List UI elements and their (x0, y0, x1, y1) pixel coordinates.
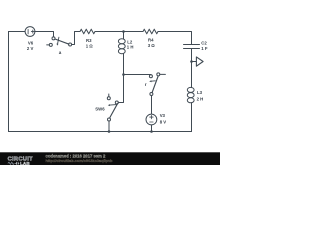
switch r open throw contact (157, 73, 160, 76)
switch a open throw stub (47, 44, 50, 46)
logo resistor zigzag (8, 162, 15, 164)
wire C2 down to L3 (191, 49, 193, 88)
capacitor C2 (184, 44, 200, 46)
wire top-left to V6 (9, 31, 26, 33)
switch a top contact (52, 37, 55, 40)
svg-text:a: a (59, 50, 62, 55)
voltage source V6 (25, 27, 35, 37)
switch a blade (55, 39, 69, 44)
wire node to SW6 (118, 75, 123, 103)
svg-text:8 V: 8 V (160, 119, 167, 124)
switch r blade (152, 77, 158, 93)
probe stub wire (192, 61, 197, 63)
voltage source V3 (146, 114, 157, 125)
wire node to switch r (124, 74, 152, 76)
probe triangle (196, 57, 203, 66)
svg-text:3 Ω: 3 Ω (148, 43, 156, 48)
wire L3 to bottom (191, 103, 193, 132)
wire left vertical (8, 32, 10, 132)
switch SW6 open throw stub (108, 94, 110, 97)
switch r open throw stub (160, 73, 166, 75)
switch r left contact (149, 75, 152, 78)
wire R4 to C2 (158, 32, 192, 45)
wire bottom horizontal (9, 131, 192, 133)
svg-text:r: r (145, 82, 147, 87)
wire V6 to switch a (35, 32, 54, 37)
node probe (junction dot) (190, 60, 193, 63)
svg-text:http://circuitlab.com/c963kc3a: http://circuitlab.com/c963kc3aq5pvb (46, 158, 114, 163)
svg-text:2 H: 2 H (197, 96, 204, 101)
switch SW6 right contact (115, 101, 118, 104)
svg-text:2 V: 2 V (27, 46, 34, 51)
switch a actuator arrow (58, 37, 59, 43)
switch SW6 open throw contact (107, 97, 110, 100)
wire V3 to bottom (151, 125, 153, 132)
wire R3 to R4 (95, 31, 143, 33)
svg-text:V3: V3 (160, 113, 166, 118)
svg-text:1 Ω: 1 Ω (86, 44, 94, 49)
svg-text:SW6: SW6 (95, 107, 105, 112)
inductor L2 (123, 32, 125, 40)
junction dot V3-bottom (150, 130, 153, 133)
switch r common contact (150, 93, 153, 96)
inductor L3 (187, 87, 194, 92)
switch SW6 actuator arrow (110, 104, 117, 107)
switch SW6 common contact (108, 118, 111, 121)
wire switch r to V3 (151, 96, 153, 115)
logo capacitor mark (15, 162, 19, 165)
resistor R4 (143, 29, 158, 34)
wire switch a to R3 (72, 32, 80, 45)
svg-text:1 F: 1 F (201, 46, 208, 51)
svg-text:LAB: LAB (20, 161, 30, 165)
svg-text:R4: R4 (148, 38, 154, 43)
svg-text:1 H: 1 H (127, 44, 134, 49)
wire SW6 to bottom (108, 121, 110, 132)
svg-text:C2: C2 (201, 41, 207, 46)
svg-text:R3: R3 (86, 38, 92, 43)
switch SW6 blade (110, 103, 118, 118)
svg-text:V6: V6 (28, 41, 34, 46)
svg-text:L3: L3 (197, 90, 203, 95)
node mid (junction dot) (122, 73, 125, 76)
resistor R3 (80, 29, 95, 34)
node top (junction dot) (122, 30, 125, 33)
switch r actuator arrow (151, 80, 155, 82)
junction dot SW6-bottom (108, 130, 111, 133)
switch a right contact (69, 43, 72, 46)
switch a open throw contact (49, 43, 52, 46)
watermark bar (0, 152, 220, 165)
